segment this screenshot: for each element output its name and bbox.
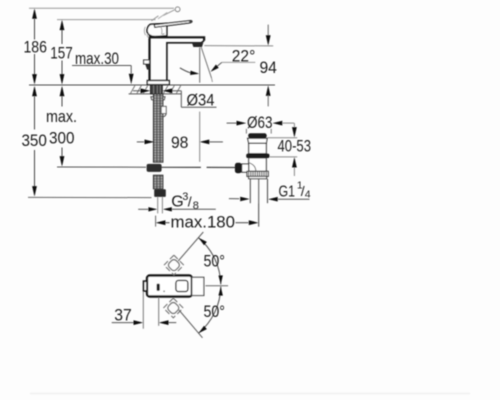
rod inlet collar: [242, 164, 249, 172]
svg-text:4: 4: [305, 189, 311, 201]
svg-text:186: 186: [23, 38, 47, 57]
svg-text:40-53: 40-53: [278, 137, 312, 156]
dimension 40-53: [292, 123, 297, 176]
label max.: [46, 107, 77, 126]
top view center line: [205, 285, 228, 287]
deck cross-hatching: [131, 86, 181, 94]
label 40-53: [278, 137, 312, 156]
phantom raised-lever tip circle: [175, 7, 180, 12]
supply fitting G3/8: [154, 189, 166, 197]
pop-up rod bracket: [144, 60, 150, 70]
drain tailpipe: [250, 179, 267, 204]
max.300 bottom extension / rod line: [57, 166, 146, 168]
handle lever blade: [154, 21, 192, 28]
radial line 50 deg lower: [179, 310, 203, 338]
dimension 98: [137, 140, 223, 145]
label 94: [259, 58, 277, 77]
drain body upper: [249, 143, 267, 153]
max.30 leader: [72, 66, 134, 85]
spout tip extension line: [199, 48, 201, 83]
water stream: [201, 47, 212, 82]
threaded shank below deck: [153, 94, 163, 162]
dimension 37: [112, 292, 177, 329]
dimension 94 line: [266, 25, 271, 107]
scan artifact line: [30, 393, 470, 395]
spout aerator: [192, 43, 203, 47]
swing arc upper: [199, 238, 221, 285]
label 50 deg upper: [204, 251, 226, 270]
dimension 157 line: [60, 20, 65, 85]
svg-text:157: 157: [50, 43, 73, 62]
spout axis extension below deck: [199, 112, 201, 162]
G3/8 thread arrows: [138, 207, 216, 211]
label G3/8: [171, 191, 199, 212]
svg-text:50°: 50°: [204, 302, 226, 321]
label 98: [171, 133, 189, 152]
shank lower section: [153, 175, 163, 189]
label 37: [114, 306, 132, 325]
svg-text:Ø34: Ø34: [187, 91, 215, 110]
svg-text:98: 98: [171, 133, 189, 152]
dimension diam34: [133, 88, 217, 107]
label 350: [21, 131, 47, 150]
rod coupling: [147, 164, 162, 172]
handle rotated position lower: [163, 298, 183, 318]
drain plug cap: [248, 133, 267, 138]
label 186: [23, 38, 47, 57]
drain lower band: [249, 176, 267, 178]
drain body lower: [249, 158, 267, 171]
pop-up rod: [162, 166, 236, 168]
top view detail dot: [163, 290, 165, 292]
diam63 witness stubs: [246, 129, 271, 134]
swing arc upper arrows: [199, 238, 223, 285]
svg-text:350: 350: [21, 131, 47, 150]
swing arc lower: [199, 287, 221, 334]
swing arc lower arrows: [199, 287, 223, 334]
svg-text:37: 37: [114, 306, 132, 325]
drain seal ring: [246, 154, 269, 158]
faucet body side view: [150, 37, 205, 80]
top view spout outline: [192, 277, 204, 295]
dimension 186 line: [32, 8, 37, 84]
svg-text:max.180: max.180: [171, 212, 236, 231]
svg-text:300: 300: [49, 129, 75, 148]
top view cartridge square: [176, 280, 188, 291]
mounting washer nut: [151, 97, 165, 100]
phantom raised-lever strokes: [151, 10, 174, 21]
svg-text:Ø63: Ø63: [247, 113, 273, 132]
threaded shank through deck: [151, 85, 163, 94]
label diam63: [247, 113, 273, 132]
extension line: handle-top level (157 ref): [57, 19, 156, 21]
svg-text:/: /: [188, 194, 192, 210]
handle knob: [147, 24, 167, 37]
radial line 50 deg upper: [178, 232, 203, 261]
label max.30: [75, 49, 119, 68]
40-53 extension lines: [267, 138, 297, 157]
label 22 deg: [232, 46, 256, 65]
pop-up rod guide: [161, 106, 166, 117]
phantom handle arcs: [144, 27, 148, 38]
label 157: [50, 43, 73, 62]
22 deg leader: [210, 62, 255, 72]
extension line: lever-top level (186 ref): [29, 7, 174, 9]
rod inlet ball knob: [235, 163, 242, 173]
dimension diam63: [227, 121, 295, 126]
label 50 deg lower: [204, 302, 226, 321]
350 bottom reference line: [28, 196, 152, 198]
label G1 1/4: [279, 179, 311, 200]
knob interior mark: [161, 27, 165, 35]
dimension max.180: [156, 204, 259, 227]
svg-text:max.: max.: [46, 107, 77, 126]
label 300: [49, 129, 75, 148]
deck underside line: [129, 93, 182, 95]
label max.180: [171, 212, 236, 231]
spout level extension line: [204, 45, 273, 47]
top view body: [147, 276, 192, 297]
svg-text:50°: 50°: [204, 251, 226, 270]
drain knurled nut: [247, 171, 268, 176]
tailpipe center line: [258, 179, 260, 227]
dimension 350 line: [32, 86, 37, 197]
flow direction arrow: [180, 68, 199, 75]
svg-text:8: 8: [193, 200, 199, 212]
top view lever slot: [157, 284, 160, 291]
svg-text:G1: G1: [279, 184, 296, 201]
G1 1/4 thread arrows: [229, 197, 310, 202]
base plate: [147, 81, 169, 85]
dimension max.300 line: [60, 86, 65, 167]
label diam34: [187, 91, 215, 110]
handle rotated position upper: [164, 255, 184, 275]
drain flange skirt: [248, 138, 268, 143]
svg-text:94: 94: [259, 58, 277, 77]
supply pipe: [158, 197, 163, 213]
mounting deck surface line: [29, 84, 275, 86]
top view tab: [144, 281, 147, 291]
